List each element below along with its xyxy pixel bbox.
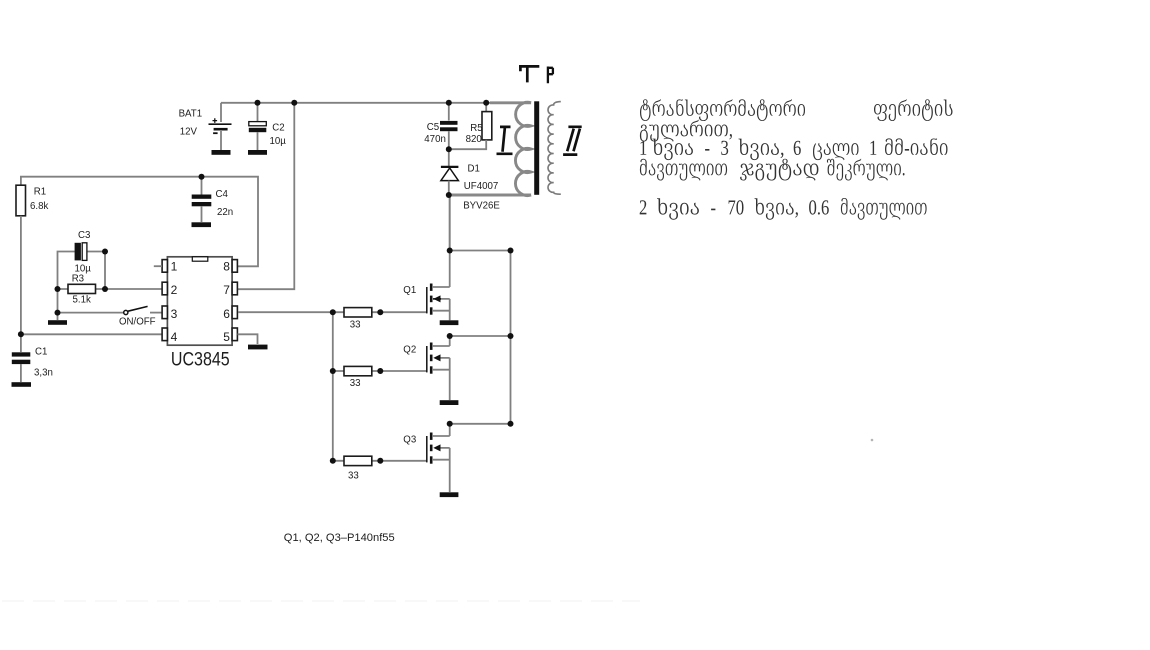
- diode D1: [441, 149, 459, 195]
- svg-text:470n: 470n: [424, 134, 446, 145]
- resistor 33 row1: [333, 308, 427, 317]
- svg-text:Q2: Q2: [403, 345, 416, 356]
- node C3 right: [102, 249, 108, 255]
- node top rail C5: [446, 100, 452, 106]
- node C5 bottom: [446, 146, 452, 152]
- pin 7 box: [232, 282, 237, 295]
- svg-text:C1: C1: [35, 347, 47, 358]
- faint scan line bottom: [2, 600, 640, 602]
- resistor 33 row3: [333, 456, 427, 465]
- wire top +12V rail: [221, 102, 492, 104]
- wire Vcc branch down to pin7: [238, 103, 294, 289]
- svg-text:D1: D1: [468, 164, 480, 175]
- pin 5 box: [232, 328, 237, 341]
- svg-text:C2: C2: [272, 123, 284, 134]
- svg-text:4: 4: [171, 330, 178, 344]
- wire pin1 stub: [154, 265, 162, 267]
- wire drain bus row2: [450, 335, 511, 337]
- label primary I: [497, 127, 513, 154]
- svg-text:R5: R5: [470, 123, 482, 134]
- svg-text:R1: R1: [34, 187, 46, 198]
- text line 2: [640, 120, 732, 142]
- node R3 right: [102, 286, 108, 292]
- transformer primary winding: [449, 102, 531, 195]
- text line 3: [641, 138, 948, 160]
- gate rail vertical: [332, 312, 334, 461]
- battery BAT1: [209, 118, 232, 150]
- faint dot artifact: [871, 439, 874, 442]
- node R3 left: [55, 286, 61, 292]
- svg-text:UF4007: UF4007: [464, 181, 498, 192]
- wire pin4 rail: [21, 333, 162, 335]
- IC notch: [192, 257, 208, 261]
- svg-text:C4: C4: [216, 189, 229, 200]
- wire top-left Vref rail: [21, 177, 258, 267]
- ground Q1: [440, 320, 459, 325]
- switch ON/OFF: [124, 306, 162, 314]
- capacitor C4: [192, 177, 212, 222]
- svg-text:3,3n: 3,3n: [34, 367, 53, 378]
- capacitor C2: [249, 103, 266, 150]
- resistor R3: [58, 284, 163, 293]
- node drain bus left row1: [447, 248, 453, 254]
- ground C2: [248, 150, 267, 155]
- svg-text:820: 820: [466, 134, 483, 145]
- wire drain bus row3: [450, 423, 511, 425]
- node gate rail row3: [330, 458, 336, 464]
- svg-text:UC3845: UC3845: [171, 349, 230, 370]
- MOSFET Q3: [427, 433, 450, 493]
- capacitor C1: [12, 334, 31, 382]
- text line 4: [640, 159, 905, 181]
- svg-text:10µ: 10µ: [270, 136, 287, 147]
- pin 4 box: [162, 328, 167, 341]
- wire primary node down: [449, 195, 451, 251]
- svg-text:3: 3: [171, 307, 178, 321]
- wire drain bus row1: [450, 250, 511, 252]
- pin 3 box: [162, 306, 167, 319]
- pin 1 box: [162, 260, 167, 273]
- wire Q2 drain up: [449, 336, 451, 346]
- svg-text:Q1, Q2, Q3–P140nf55: Q1, Q2, Q3–P140nf55: [284, 532, 395, 544]
- resistor R5: [449, 103, 492, 149]
- text line 5: [640, 198, 927, 220]
- wire pin6 to gate rail: [238, 311, 333, 313]
- svg-text:33: 33: [350, 378, 361, 389]
- ground switch: [48, 320, 67, 325]
- svg-text:6.8k: 6.8k: [30, 201, 48, 212]
- svg-text:7: 7: [223, 283, 230, 297]
- ground pin5: [248, 345, 268, 350]
- ground C4: [192, 222, 212, 227]
- svg-text:2: 2: [171, 283, 178, 297]
- wire switch node to ground: [57, 313, 59, 320]
- wire R1 bottom to C1 node: [20, 216, 22, 334]
- svg-text:BAT1: BAT1: [179, 109, 203, 120]
- MOSFET Q2: [427, 343, 450, 401]
- ground Q3: [440, 492, 459, 497]
- svg-text:ON/OFF: ON/OFF: [119, 317, 156, 328]
- wire Q1 drain up: [449, 195, 451, 287]
- node drain bus left row2: [447, 333, 453, 339]
- text line 1: [640, 99, 953, 121]
- node row3 right: [377, 458, 383, 464]
- node drain bus right row2: [508, 333, 514, 339]
- capacitor C3: [58, 243, 106, 289]
- node C4 top: [199, 174, 205, 180]
- svg-text:C3: C3: [78, 230, 90, 241]
- svg-text:22n: 22n: [217, 207, 233, 218]
- svg-text:8: 8: [223, 260, 230, 274]
- ground battery: [212, 150, 231, 155]
- svg-text:33: 33: [348, 470, 359, 481]
- node top rail C2: [255, 100, 261, 106]
- wire right drain rail: [510, 251, 512, 424]
- svg-text:1: 1: [171, 260, 178, 274]
- svg-text:6: 6: [223, 307, 230, 321]
- resistor R1: [16, 185, 26, 216]
- node primary bottom: [446, 192, 452, 198]
- node top rail R5: [483, 100, 489, 106]
- ground C1: [12, 382, 32, 387]
- svg-text:R3: R3: [72, 274, 84, 285]
- transformer secondary winding: [548, 102, 561, 195]
- node gate rail row2: [330, 368, 336, 374]
- transformer core: [534, 101, 539, 195]
- svg-text:BYV26E: BYV26E: [463, 201, 500, 212]
- svg-text:Q1: Q1: [403, 285, 416, 296]
- wire pin5 to ground: [238, 334, 258, 344]
- pin 8 box: [232, 260, 237, 273]
- svg-text:12V: 12V: [180, 126, 198, 137]
- svg-text:33: 33: [350, 320, 361, 331]
- label secondary II: [563, 127, 582, 155]
- pin 6 box: [232, 306, 237, 319]
- node row1 right: [377, 309, 383, 315]
- node drain bus right row1: [508, 248, 514, 254]
- IC U1 UC3845 body: [167, 257, 232, 345]
- node row2 right: [377, 368, 383, 374]
- label TP: [519, 66, 553, 83]
- node drain bus left row3: [447, 421, 453, 427]
- node gate rail row1: [330, 309, 336, 315]
- wire R3 node down to switch node: [57, 289, 59, 313]
- resistor 33 row2: [333, 366, 427, 375]
- wire primary bottom: [449, 194, 514, 196]
- pin 2 box: [162, 282, 167, 295]
- node drain bus right row3: [508, 421, 514, 427]
- svg-text:5: 5: [223, 330, 230, 344]
- wire Q3 drain up: [449, 424, 451, 436]
- wire battery top lead: [220, 103, 222, 122]
- svg-text:C5: C5: [427, 122, 439, 133]
- ground Q2: [440, 400, 459, 405]
- svg-text:Q3: Q3: [403, 435, 416, 446]
- capacitor C5: [440, 103, 458, 149]
- MOSFET Q1: [427, 284, 450, 321]
- svg-text:5.1k: 5.1k: [73, 295, 91, 306]
- node top rail Vcc branch: [291, 100, 297, 106]
- wire to switch: [58, 312, 124, 314]
- node switch branch: [55, 310, 61, 316]
- node pin4 rail left: [18, 331, 24, 337]
